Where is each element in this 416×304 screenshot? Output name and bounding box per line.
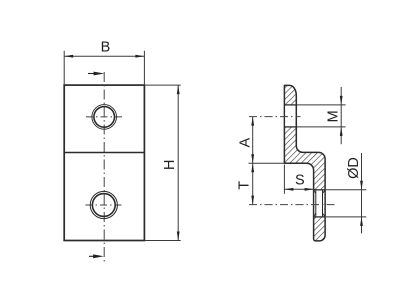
dimension H line xyxy=(177,85,179,240)
bottom hole void (section) xyxy=(314,190,324,216)
dimension A line xyxy=(252,117,254,164)
dimension B extension line right xyxy=(143,51,145,85)
top hole void (section) xyxy=(285,105,295,126)
Z-profile section body with hatching xyxy=(284,85,325,241)
bottom hole chamfer top-right xyxy=(322,190,324,193)
svg-text:B: B xyxy=(101,40,111,56)
dimension S line xyxy=(284,188,313,190)
svg-text:T: T xyxy=(237,181,253,190)
bottom hole horizontal centerline xyxy=(86,204,123,206)
top hole centerline side view xyxy=(249,116,301,118)
top hole upper edge xyxy=(284,104,296,106)
dimension M extension line top xyxy=(297,104,346,106)
step underside extension line xyxy=(249,162,285,164)
dimension D extension line bottom xyxy=(326,216,366,218)
top hole horizontal centerline xyxy=(86,116,123,118)
dimension D extension line top xyxy=(326,189,366,191)
view direction arrow top xyxy=(88,73,98,75)
dimension S left arrow xyxy=(284,188,293,191)
dimension T bottom arrow xyxy=(251,196,254,205)
dimension H bottom arrow xyxy=(177,232,180,241)
bend edge line (middle horizontal) xyxy=(64,152,144,154)
dimension B left arrow xyxy=(64,55,73,58)
dimension D bottom arrow xyxy=(360,217,363,226)
top hole (threaded M) inner circle xyxy=(94,107,115,128)
bottom hole upper edge xyxy=(314,189,326,191)
dimension B line xyxy=(64,55,144,57)
bottom hole lower edge xyxy=(314,216,326,218)
bottom hole bore line right xyxy=(322,190,324,216)
view direction arrow bottom xyxy=(89,255,98,257)
svg-text:S: S xyxy=(295,173,305,189)
dimension S right arrow xyxy=(305,188,314,191)
dimension H extension line bottom xyxy=(144,240,180,242)
bottom hole inner circle xyxy=(92,194,115,217)
svg-text:M: M xyxy=(325,110,341,122)
bottom hole chamfer top-left xyxy=(314,190,316,193)
bottom hole countersink outer circle xyxy=(90,191,117,218)
dimension A bottom arrow xyxy=(251,154,254,163)
svg-text:H: H xyxy=(162,160,178,170)
dimension D top arrow xyxy=(360,181,363,190)
vertical centerline front view xyxy=(103,72,105,262)
bottom hole chamfer bottom-left xyxy=(314,213,316,216)
bottom hole chamfer bottom-right xyxy=(322,213,324,216)
dimension M extension line bottom xyxy=(297,126,346,128)
bottom hole centerline side view xyxy=(249,204,335,206)
dimension T top arrow xyxy=(251,163,254,172)
dimension H extension line top xyxy=(144,84,180,86)
bottom hole bore line left xyxy=(315,190,317,216)
plate outline front view xyxy=(64,85,144,240)
dimension B right arrow xyxy=(135,55,144,58)
dimension A top arrow xyxy=(251,117,254,126)
dimension B extension line left xyxy=(63,51,65,85)
dimension D line xyxy=(361,153,363,233)
top hole lower edge xyxy=(284,126,296,128)
top hole thread outer circle xyxy=(92,105,117,130)
dimension M line xyxy=(340,87,342,144)
svg-text:ØD: ØD xyxy=(346,157,362,179)
dimension M bottom arrow xyxy=(340,127,343,136)
dimension T line xyxy=(252,163,254,204)
dimension M top arrow xyxy=(340,96,343,105)
dimension H top arrow xyxy=(177,85,180,94)
dimension S extension line left xyxy=(283,165,285,194)
svg-text:A: A xyxy=(237,137,253,147)
